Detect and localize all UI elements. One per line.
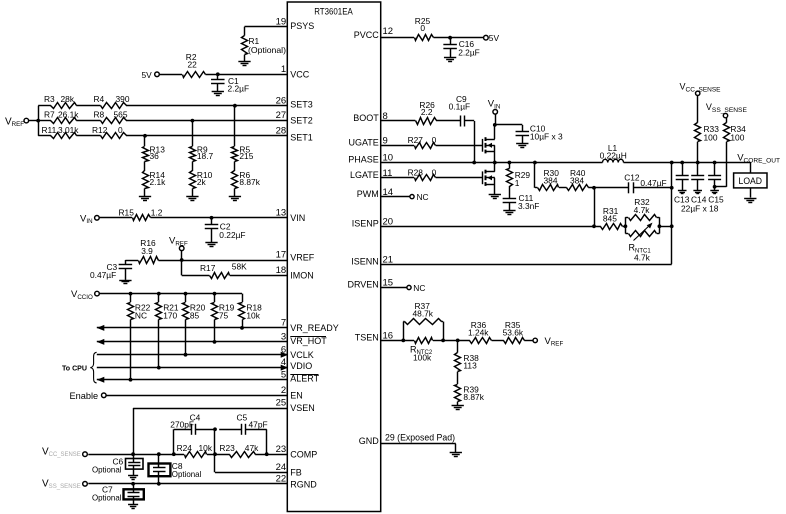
- resistor R28 0: [408, 168, 437, 181]
- svg-text:FB: FB: [290, 467, 302, 477]
- node R40/ISENP junction: [592, 186, 596, 190]
- svg-text:384: 384: [570, 175, 584, 185]
- svg-text:R28: R28: [408, 168, 424, 178]
- wire RGND row: [88, 482, 287, 486]
- wire C3 to R16: [125, 260, 138, 262]
- svg-text:ISENP: ISENP: [352, 219, 379, 229]
- pin 8 BOOT: [353, 111, 388, 123]
- capacitor C1 2.2uF: [211, 74, 249, 93]
- svg-text:0.47µF: 0.47µF: [90, 270, 116, 280]
- svg-text:0: 0: [118, 125, 123, 135]
- svg-text:VR_READY: VR_READY: [290, 323, 339, 333]
- ground LOAD: [744, 199, 756, 203]
- transistor Q2 (low side): [483, 163, 495, 195]
- wire network to output vertical: [659, 224, 673, 228]
- resistor R14 2.1k: [143, 162, 167, 197]
- svg-text:23: 23: [276, 444, 287, 455]
- resistor R9 18.7: [190, 145, 214, 162]
- thermistor RNTC2 100k: [410, 338, 445, 363]
- svg-text:13: 13: [276, 207, 287, 218]
- svg-text:19: 19: [276, 16, 287, 27]
- svg-text:25: 25: [276, 398, 287, 409]
- thermistor RNTC1 4.7k: [625, 217, 661, 262]
- svg-text:R23: R23: [219, 443, 235, 453]
- resistor R6 8.87k: [232, 162, 261, 197]
- svg-text:2: 2: [281, 385, 286, 396]
- svg-text:LOAD: LOAD: [739, 176, 763, 187]
- node C8 top junction: [157, 452, 161, 456]
- resistor R12 0: [92, 125, 127, 139]
- capacitor C14: [691, 163, 704, 191]
- ground R6: [229, 197, 241, 201]
- terminal Enable: [70, 391, 107, 401]
- ground R10: [186, 197, 198, 201]
- svg-text:VREF: VREF: [5, 116, 24, 128]
- svg-text:VR_HOT: VR_HOT: [290, 336, 327, 346]
- ground C14: [693, 191, 702, 194]
- svg-text:2k: 2k: [197, 177, 207, 187]
- node R24/R23/FB junction: [213, 452, 217, 456]
- wire R26 to C9: [436, 120, 460, 122]
- svg-text:22: 22: [188, 60, 198, 70]
- svg-text:PSYS: PSYS: [290, 21, 314, 31]
- wire PWM to NC: [381, 196, 410, 198]
- transistor Q1 (high side): [483, 125, 495, 163]
- node SET1/R13 junction: [143, 134, 147, 146]
- ground R1: [238, 62, 250, 66]
- node VCCIO junction: [157, 292, 161, 296]
- svg-text:VREF: VREF: [290, 252, 315, 262]
- ground exposed pad: [450, 453, 462, 457]
- svg-text:2.1k: 2.1k: [150, 177, 167, 187]
- wire R15 to VIN pin: [151, 217, 288, 219]
- pin 7 VR_READY: [281, 318, 339, 334]
- node VCC/C1 junction: [216, 72, 220, 76]
- svg-text:10k: 10k: [246, 311, 260, 321]
- label C13 C14 C15 values: [674, 195, 724, 214]
- capacitor C10 10uF x 3: [516, 123, 563, 143]
- pin 28 SET1: [276, 125, 313, 142]
- node VCCIO junction: [184, 292, 188, 296]
- svg-text:C5: C5: [237, 413, 248, 423]
- wire Enable: [106, 395, 287, 397]
- pin 10 PHASE: [348, 153, 393, 165]
- node VIN/C10 junction: [493, 123, 497, 127]
- resistor R35 53.6k: [492, 320, 525, 344]
- ground C2: [205, 243, 217, 247]
- wire VR_READY row: [97, 325, 287, 331]
- ground Q2 source: [489, 195, 501, 199]
- svg-text:0: 0: [432, 135, 437, 145]
- terminal VCCIO: [71, 289, 99, 301]
- svg-text:VSEN: VSEN: [290, 403, 315, 413]
- svg-text:1: 1: [515, 178, 520, 188]
- svg-text:PHASE: PHASE: [348, 155, 379, 165]
- pin 11 LGATE: [350, 168, 392, 180]
- svg-text:21: 21: [383, 254, 394, 265]
- svg-text:390: 390: [116, 94, 130, 104]
- wire ALERT row: [97, 377, 287, 383]
- resistor R8 565: [94, 109, 128, 123]
- svg-text:VREF: VREF: [545, 336, 564, 348]
- svg-text:384: 384: [544, 175, 558, 185]
- wire R2 to VCC pin: [206, 74, 288, 76]
- pin 25 VSEN: [276, 398, 315, 413]
- pin 18 IMON: [276, 265, 314, 281]
- ground C7: [128, 505, 138, 509]
- resistor R32 4.7k: [623, 197, 660, 233]
- svg-text:113: 113: [463, 360, 477, 370]
- node C4/C5 junction: [213, 427, 217, 431]
- pin 26 SET3: [276, 95, 313, 109]
- node VCCIO junction: [213, 292, 217, 296]
- svg-text:Optional: Optional: [92, 492, 122, 502]
- svg-text:18.7: 18.7: [197, 151, 214, 161]
- terminal VREF (middle): [169, 236, 188, 261]
- terminal VIN (top): [488, 99, 501, 125]
- svg-text:VIN: VIN: [80, 213, 93, 225]
- capacitor C15: [708, 163, 721, 191]
- svg-text:8.87k: 8.87k: [239, 177, 260, 187]
- svg-text:VCCIO: VCCIO: [71, 289, 93, 301]
- To CPU brace: [62, 352, 97, 383]
- wire phase to R30: [535, 163, 538, 188]
- svg-text:27: 27: [276, 110, 287, 121]
- svg-text:SET1: SET1: [290, 133, 313, 143]
- svg-text:3.01k: 3.01k: [58, 125, 79, 135]
- svg-text:47k: 47k: [245, 443, 259, 453]
- wire R35 to VREF terminal: [524, 340, 533, 342]
- svg-text:2.2µF: 2.2µF: [228, 84, 250, 94]
- svg-text:17: 17: [276, 250, 287, 261]
- wire BOOT to R26: [381, 120, 416, 122]
- resistor R5 215: [232, 145, 254, 162]
- ground C16: [444, 58, 456, 62]
- resistor R29 1: [507, 163, 531, 189]
- ground R39: [452, 406, 464, 410]
- wire TSEN row: [381, 339, 414, 343]
- resistor R3 28k: [44, 94, 77, 108]
- resistor R16 3.9: [139, 238, 159, 263]
- resistor R33 100: [695, 96, 720, 163]
- capacitor C4 270pF: [170, 413, 200, 435]
- terminal VREF (left): [5, 116, 29, 128]
- resistor R11 3.01k: [42, 125, 80, 139]
- wire C9 to phase node: [465, 121, 475, 163]
- svg-text:Optional: Optional: [172, 469, 202, 479]
- resistor R2 22: [183, 52, 206, 78]
- svg-text:85: 85: [190, 311, 200, 321]
- svg-text:4.7k: 4.7k: [634, 205, 651, 215]
- svg-text:565: 565: [114, 109, 128, 119]
- svg-text:R3: R3: [44, 94, 55, 104]
- pin 14 PWM: [357, 187, 393, 199]
- svg-text:VREF: VREF: [169, 236, 188, 248]
- svg-text:VIN: VIN: [488, 99, 501, 111]
- svg-text:18: 18: [276, 265, 287, 276]
- svg-text:NC: NC: [135, 311, 147, 321]
- svg-text:0.47µF: 0.47µF: [640, 178, 666, 188]
- wire VIN to C10: [495, 124, 523, 126]
- svg-text:EN: EN: [290, 391, 303, 401]
- svg-text:SET2: SET2: [290, 115, 313, 125]
- svg-text:R8: R8: [94, 109, 105, 119]
- node C14 junction: [696, 161, 700, 165]
- pin 29 GND (Exposed Pad): [359, 433, 455, 446]
- IC U1 RT3601EA: [287, 2, 380, 512]
- resistor R20 85: [183, 294, 206, 355]
- svg-text:1.2: 1.2: [151, 207, 163, 217]
- pin 21 ISENN: [351, 254, 393, 266]
- ground C6: [128, 476, 138, 480]
- capacitor C9 0.1uF: [449, 94, 471, 127]
- svg-text:100: 100: [730, 132, 744, 142]
- resistor R4 390: [94, 94, 130, 108]
- svg-text:R4: R4: [94, 94, 105, 104]
- resistor R15 1.2: [119, 207, 163, 220]
- ground C11: [503, 211, 515, 215]
- node VCCIO junction: [129, 292, 133, 296]
- svg-text:BOOT: BOOT: [353, 113, 379, 123]
- resistor R24 10k: [177, 443, 213, 458]
- svg-text:VIN: VIN: [290, 213, 305, 223]
- svg-text:UGATE: UGATE: [348, 138, 378, 148]
- capacitor C2 0.22uF: [205, 218, 246, 243]
- svg-text:VDIO: VDIO: [290, 361, 312, 371]
- terminal NC (DRVEN): [407, 283, 426, 293]
- resistor R22 NC: [128, 294, 151, 380]
- terminal NC (PWM): [410, 192, 429, 202]
- svg-text:58K: 58K: [232, 261, 247, 271]
- svg-text:36: 36: [150, 151, 160, 161]
- svg-text:2.2: 2.2: [421, 107, 433, 117]
- wire SET1 row: [38, 135, 287, 137]
- svg-text:100k: 100k: [413, 353, 432, 363]
- node C4 branch junction: [172, 452, 176, 456]
- wire SET2 row: [38, 120, 287, 122]
- svg-text:5V: 5V: [489, 33, 500, 43]
- svg-text:C12: C12: [624, 172, 640, 182]
- svg-text:R11: R11: [42, 125, 57, 135]
- svg-text:R27: R27: [408, 135, 424, 145]
- svg-text:SET3: SET3: [290, 100, 313, 110]
- svg-text:845: 845: [603, 213, 617, 223]
- terminal VCC_SENSE (right): [680, 82, 721, 96]
- node C5/COMP junction: [265, 452, 269, 456]
- pin 24 FB: [276, 462, 302, 478]
- pin 9 UGATE: [348, 136, 387, 148]
- node VSEN/C6 junction: [131, 452, 135, 456]
- pin 2 EN: [281, 385, 303, 401]
- svg-text:VCORE_OUT: VCORE_OUT: [737, 153, 780, 165]
- node SET2/R9 junction: [191, 119, 195, 147]
- terminal VREF (right): [533, 336, 563, 348]
- terminal VIN (left): [80, 213, 99, 225]
- capacitor C3 0.47uF: [90, 260, 132, 280]
- wire R27 to Q1 gate: [436, 145, 483, 147]
- wire R25 to 5V: [434, 37, 484, 39]
- svg-text:PVCC: PVCC: [354, 30, 380, 40]
- pin 1 VCC: [281, 64, 310, 80]
- pin 23 COMP: [276, 444, 318, 460]
- svg-text:0: 0: [432, 168, 437, 178]
- svg-text:2.2µF: 2.2µF: [458, 48, 480, 58]
- ground R14: [139, 197, 151, 201]
- svg-text:22: 22: [276, 473, 287, 484]
- wire C4/C5 branch: [174, 429, 267, 454]
- svg-text:VCLK: VCLK: [290, 350, 314, 360]
- ground C13: [678, 191, 687, 194]
- svg-text:3.3nF: 3.3nF: [518, 201, 539, 211]
- wire TSEN to R36: [443, 339, 470, 343]
- terminal 5V (left): [142, 70, 160, 80]
- LOAD box: [734, 163, 767, 198]
- terminal VSS_SENSE (right): [706, 102, 747, 118]
- svg-text:R12: R12: [92, 125, 108, 135]
- svg-text:DRVEN: DRVEN: [347, 280, 378, 290]
- svg-text:R15: R15: [119, 207, 135, 217]
- resistor R36 1.24k: [468, 320, 492, 344]
- svg-text:R24: R24: [177, 443, 193, 453]
- pin 19 PSYS: [276, 16, 315, 31]
- pin 27 SET2: [276, 110, 313, 125]
- wire R40 to C12: [588, 187, 629, 189]
- node VIN/C2 junction: [210, 216, 214, 220]
- capacitor C8 Optional: [149, 454, 202, 484]
- terminal VSS_SENSE (left): [42, 478, 87, 490]
- node C13 junction: [680, 161, 684, 165]
- capacitor C11 3.3nF: [503, 186, 540, 211]
- wire VREF to SET rows: [29, 106, 40, 136]
- svg-text:26: 26: [276, 95, 287, 106]
- svg-text:5: 5: [281, 369, 286, 380]
- resistor R39 8.87k: [455, 372, 485, 406]
- wire DRVEN to NC: [381, 287, 407, 289]
- capacitor C16 2.2uF: [443, 38, 479, 58]
- svg-text:29 (Exposed Pad): 29 (Exposed Pad): [385, 433, 455, 443]
- wire SET3 row: [38, 105, 287, 107]
- pin 12 PVCC: [354, 26, 393, 40]
- svg-text:1.24k: 1.24k: [468, 327, 489, 337]
- svg-text:8.87k: 8.87k: [463, 392, 484, 402]
- resistor R27 0: [408, 135, 437, 149]
- svg-text:ALERT: ALERT: [290, 374, 319, 384]
- wire LGATE to R28: [381, 177, 414, 179]
- ground C1: [212, 92, 224, 96]
- resistor R1 (Optional): [242, 36, 287, 62]
- node C15 junction: [713, 161, 717, 165]
- resistor R10 2k: [190, 162, 213, 197]
- capacitor C12 0.47uF: [624, 172, 666, 193]
- node R29/phase junction: [508, 161, 512, 165]
- wire VR_HOT row: [97, 339, 287, 345]
- svg-text:0.22µH: 0.22µH: [600, 150, 627, 160]
- wire ISENP row: [381, 224, 601, 228]
- wire VCLK row: [97, 352, 288, 358]
- svg-text:0.22µF: 0.22µF: [219, 230, 245, 240]
- capacitor C7 Optional: [92, 484, 144, 504]
- svg-text:TSEN: TSEN: [355, 333, 379, 343]
- resistor R21 170: [156, 294, 179, 368]
- node C16 junction: [448, 36, 452, 40]
- pin 4 VDIO: [281, 357, 312, 371]
- pin 5 ALERT: [281, 369, 320, 383]
- capacitor C13: [676, 163, 689, 191]
- svg-text:R17: R17: [200, 263, 216, 273]
- wire ISENN row: [381, 161, 674, 265]
- svg-text:Optional: Optional: [92, 465, 122, 475]
- pin 20 ISENP: [352, 217, 393, 229]
- pin 17 VREF: [276, 250, 315, 263]
- svg-text:Enable: Enable: [70, 391, 99, 401]
- svg-text:4.7k: 4.7k: [634, 252, 651, 262]
- resistor R26 2.2: [416, 100, 437, 125]
- wire R40 junction down to ISENP: [594, 188, 596, 227]
- resistor R23 47k: [219, 443, 259, 458]
- svg-text:R7: R7: [44, 109, 55, 119]
- wire 5V to R2: [159, 74, 182, 76]
- wire FB row: [215, 429, 288, 472]
- ground C15: [710, 191, 719, 194]
- resistor R37 48.7k: [403, 301, 443, 340]
- svg-text:5V: 5V: [142, 70, 153, 80]
- wire PSYS: [245, 27, 288, 36]
- resistor R25 0: [415, 16, 434, 41]
- resistor R40 384: [559, 168, 589, 191]
- resistor R7 26.1k: [44, 109, 79, 123]
- capacitor C5 47pF: [237, 413, 268, 435]
- svg-text:1: 1: [281, 64, 286, 75]
- ground C10: [516, 144, 528, 148]
- svg-text:NC: NC: [417, 192, 429, 202]
- svg-text:0.1µF: 0.1µF: [449, 101, 471, 111]
- wire GND to ground: [381, 444, 456, 453]
- svg-text:10k: 10k: [199, 443, 213, 453]
- pin 16 TSEN: [355, 331, 393, 343]
- svg-text:215: 215: [239, 151, 253, 161]
- node VREF junction: [180, 258, 184, 262]
- node SET3/R5 junction: [233, 104, 237, 146]
- svg-text:VCC_SENSE: VCC_SENSE: [42, 446, 81, 458]
- svg-text:GND: GND: [359, 436, 380, 446]
- wire COMP row: [88, 454, 287, 456]
- resistor R13 36: [143, 145, 166, 162]
- wire R28 to Q2 gate: [436, 177, 483, 179]
- svg-text:(Optional): (Optional): [248, 45, 286, 55]
- svg-text:To CPU: To CPU: [62, 363, 87, 372]
- wire UGATE to R27: [381, 145, 414, 147]
- svg-text:53.6k: 53.6k: [503, 327, 524, 337]
- inductor L1 0.22uH: [600, 143, 627, 163]
- svg-text:22µF x 18: 22µF x 18: [681, 203, 719, 213]
- resistor R19 75: [212, 294, 235, 342]
- resistor R38 113: [455, 340, 480, 371]
- svg-text:47pF: 47pF: [249, 420, 268, 430]
- wire PHASE row: [381, 162, 603, 164]
- svg-text:10µF x 3: 10µF x 3: [530, 131, 563, 141]
- capacitor C6 Optional: [92, 454, 143, 475]
- resistor R18 10k: [239, 294, 263, 328]
- resistor R17 58K: [200, 261, 247, 278]
- resistor R31 845: [601, 206, 623, 230]
- ground C3: [119, 281, 131, 284]
- svg-text:IMON: IMON: [290, 271, 314, 281]
- svg-text:0: 0: [420, 23, 425, 33]
- svg-text:12: 12: [383, 26, 394, 37]
- pin 15 DRVEN: [347, 278, 393, 290]
- wire VCCIO row: [99, 293, 242, 295]
- svg-text:75: 75: [219, 311, 229, 321]
